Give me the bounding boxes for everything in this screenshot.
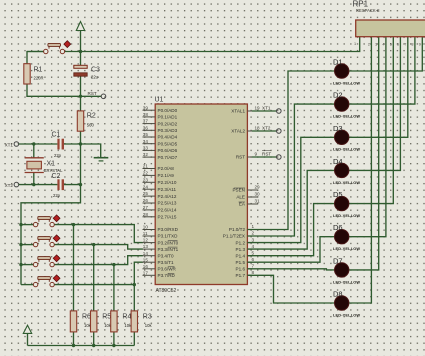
svg-text:P1.2: P1.2: [236, 240, 246, 245]
svg-text:P3.0/RXD: P3.0/RXD: [158, 227, 179, 232]
svg-text:31: 31: [255, 199, 261, 204]
COMPONENTS-LEFT: [24, 41, 153, 332]
node RST junction: [79, 95, 82, 98]
svg-text:36: 36: [143, 125, 149, 130]
svg-text:LED-YELLOW: LED-YELLOW: [333, 213, 360, 218]
svg-text:AT89C52: AT89C52: [156, 288, 177, 294]
svg-text:P1.5: P1.5: [236, 260, 246, 265]
wire XT1 rail: [19, 143, 58, 145]
svg-text:34: 34: [143, 139, 149, 144]
wire VCC rail from reset button to RP1 pin 1: [65, 37, 360, 52]
svg-text:LED-YELLOW: LED-YELLOW: [333, 114, 360, 119]
terminal XT2 left: [14, 182, 19, 187]
wire button row 3 to pin 14: [54, 256, 143, 265]
svg-text:X1: X1: [47, 161, 56, 168]
pin 10 P3.0/RXD: [143, 225, 179, 233]
resistor R4: [111, 311, 132, 332]
svg-text:R4: R4: [122, 314, 131, 321]
svg-text:D7: D7: [333, 256, 343, 265]
wire R5 bottom: [93, 332, 95, 346]
svg-text:P0.2/AD2: P0.2/AD2: [158, 121, 178, 126]
svg-text:16: 16: [143, 264, 149, 269]
svg-text:P2.1/A9: P2.1/A9: [158, 173, 175, 178]
svg-text:P0.3/AD3: P0.3/AD3: [158, 128, 178, 133]
pin 26 P2.5/A13: [143, 198, 177, 206]
wire R4 bottom: [113, 332, 115, 346]
svg-text:3: 3: [252, 237, 255, 242]
wire C1 right to ground column: [64, 143, 81, 145]
svg-text:11: 11: [143, 231, 148, 236]
svg-text:RST: RST: [88, 91, 97, 96]
svg-text:23: 23: [143, 177, 149, 182]
node rail row2: [19, 243, 22, 246]
svg-text:P3.5/T1: P3.5/T1: [158, 260, 175, 265]
svg-text:4: 4: [382, 43, 384, 47]
svg-text:6: 6: [252, 257, 255, 262]
wire R6 column: [73, 225, 75, 311]
pin 24 P2.3/A11: [143, 184, 177, 192]
svg-text:33: 33: [143, 146, 149, 151]
svg-text:P2.2/A10: P2.2/A10: [158, 180, 177, 185]
LED D6 LED-YELLOW: [333, 223, 360, 251]
svg-text:P0.1/AD1: P0.1/AD1: [158, 115, 178, 120]
pin 11 P3.1/TXD: [143, 231, 179, 239]
svg-text:10: 10: [143, 225, 149, 230]
svg-text:D6: D6: [333, 223, 343, 232]
pin 17 P3.7/RD: [143, 270, 176, 278]
resistor R5: [91, 311, 112, 332]
pin 14 P3.4/T0: [143, 251, 175, 259]
wire XT2 rail: [19, 184, 58, 186]
pin 30 ALE: [236, 192, 260, 200]
svg-text:22: 22: [143, 171, 149, 176]
svg-text:D5: D5: [333, 190, 343, 199]
pin 36 P0.3/AD3: [143, 125, 178, 133]
pin 9 RST: [236, 152, 258, 160]
svg-text:24: 24: [143, 184, 149, 189]
svg-text:XT2: XT2: [5, 183, 14, 188]
pin 18 XTAL2: [231, 126, 260, 134]
svg-text:18: 18: [255, 126, 261, 131]
node ground junction C1: [79, 142, 82, 145]
svg-text:P2.6/A14: P2.6/A14: [158, 208, 177, 213]
svg-text:P3.1/TXD: P3.1/TXD: [158, 234, 179, 239]
wire C3 top: [80, 52, 82, 66]
svg-text:LED-YELLOW: LED-YELLOW: [333, 147, 360, 152]
LED D4 LED-YELLOW: [333, 157, 360, 185]
pushbutton SW3: [33, 235, 60, 247]
svg-text:17: 17: [143, 270, 149, 275]
wire button row 2 left: [21, 244, 33, 246]
wire VCC rail left segment to reset button: [27, 51, 44, 53]
svg-text:P0.4/AD4: P0.4/AD4: [158, 135, 178, 140]
ground symbol arrow bottom left: [23, 325, 31, 345]
svg-text:PSEN: PSEN: [232, 188, 245, 193]
wire button row 2 to pin 13: [54, 245, 143, 250]
wire button row 1 left: [21, 224, 33, 226]
svg-text:14: 14: [143, 251, 149, 256]
wire RST terminal: [252, 156, 276, 158]
svg-text:XT1: XT1: [5, 142, 14, 147]
wire crystal bottom: [33, 173, 35, 185]
wire crystal top: [33, 144, 35, 158]
wire P1.3 to LED D4: [247, 170, 334, 249]
pin 22 P2.1/A9: [143, 171, 175, 179]
wire ground bottom rail: [28, 345, 135, 347]
svg-text:13: 13: [143, 244, 149, 249]
pin 27 P2.6/A14: [143, 205, 177, 213]
resistor R3: [131, 311, 152, 332]
node rail row3: [19, 263, 22, 266]
pin 23 P2.2/A10: [143, 177, 177, 185]
svg-text:R3: R3: [143, 314, 152, 321]
svg-text:P2.0/A8: P2.0/A8: [158, 166, 175, 171]
svg-text:15: 15: [143, 257, 149, 262]
svg-text:29: 29: [255, 185, 261, 190]
svg-text:26: 26: [143, 198, 149, 203]
svg-text:21: 21: [143, 164, 149, 169]
svg-text:1: 1: [354, 42, 356, 46]
wire R6 bottom: [73, 332, 75, 346]
svg-text:P3.3/INT1: P3.3/INT1: [158, 247, 179, 252]
svg-text:P1.0/T2: P1.0/T2: [229, 227, 246, 232]
svg-text:2: 2: [368, 43, 370, 47]
wire P1.7 to LED D8: [247, 275, 334, 303]
svg-text:5: 5: [252, 250, 255, 255]
pin 31 EA: [239, 199, 260, 207]
wire RST node to terminal: [81, 95, 102, 97]
pin 3 P1.2: [236, 237, 255, 245]
svg-text:P1.3: P1.3: [236, 247, 246, 252]
svg-text:D3: D3: [333, 124, 343, 133]
svg-text:10k: 10k: [145, 323, 153, 328]
wire R2 top: [80, 96, 82, 111]
svg-text:P3.2/INT0: P3.2/INT0: [158, 240, 179, 245]
node row1 R6 junction: [72, 223, 75, 226]
wire R1 bottom to RST node: [27, 84, 81, 96]
wire R1 branch (button left to R1 top): [27, 52, 44, 64]
svg-text:38: 38: [143, 112, 149, 117]
wire P1.0 to LED D1: [247, 71, 334, 230]
terminal XT2 right: [262, 126, 281, 134]
svg-text:R2: R2: [87, 113, 96, 120]
node VCC junction: [79, 50, 82, 53]
LED D7 LED-YELLOW: [333, 256, 360, 284]
svg-text:1: 1: [252, 224, 255, 229]
svg-text:P2.4/A12: P2.4/A12: [158, 194, 177, 199]
node row2 R5 junction: [92, 243, 95, 246]
svg-text:220R: 220R: [34, 76, 44, 81]
svg-text:D1: D1: [333, 58, 343, 67]
wire ground branch: [81, 144, 101, 158]
pushbutton SW2: [33, 215, 60, 227]
pin 16 P3.6/WR: [143, 264, 177, 272]
wire LED D8 to RP1: [349, 37, 372, 303]
svg-text:LED-YELLOW: LED-YELLOW: [333, 279, 360, 284]
wire LED D2 to RP1: [349, 37, 415, 104]
svg-text:LED-YELLOW: LED-YELLOW: [333, 312, 360, 317]
wire LED D3 to RP1: [349, 37, 408, 138]
node row3 R4 junction: [112, 263, 115, 266]
pin 25 P2.4/A12: [143, 191, 177, 199]
svg-text:RESPACK-8: RESPACK-8: [356, 8, 380, 13]
svg-text:8: 8: [252, 270, 255, 275]
svg-text:22p: 22p: [54, 153, 62, 158]
pin 5 P1.4: [236, 250, 255, 258]
pin 39 P0.0/AD0: [143, 105, 178, 113]
svg-text:D2: D2: [333, 91, 343, 100]
svg-text:EA: EA: [239, 202, 246, 207]
svg-text:XT1: XT1: [262, 106, 271, 111]
resistor R1: [24, 64, 44, 84]
svg-text:37: 37: [143, 119, 149, 124]
svg-text:R1: R1: [34, 67, 43, 74]
svg-text:D4: D4: [333, 157, 343, 166]
svg-text:30: 30: [255, 192, 261, 197]
svg-text:3: 3: [375, 43, 377, 47]
svg-text:P1.4: P1.4: [236, 253, 246, 258]
node bottom R4: [112, 344, 115, 347]
wire P1.5 to LED D6: [247, 237, 334, 263]
svg-text:P1.1/T2EX: P1.1/T2EX: [223, 234, 245, 239]
wire ground column to button rail: [21, 185, 81, 285]
svg-text:27: 27: [143, 205, 149, 210]
svg-text:P0.6/AD6: P0.6/AD6: [158, 148, 178, 153]
wire XT2 terminal: [252, 130, 276, 132]
pushbutton SW4: [33, 255, 60, 267]
svg-text:22p: 22p: [53, 193, 61, 198]
chip U1 AT89C52: [155, 97, 248, 295]
svg-text:P3.6/WR: P3.6/WR: [158, 267, 177, 272]
wire R3 column: [133, 285, 135, 311]
svg-text:ALE: ALE: [236, 195, 245, 200]
node XT2 crystal junction: [32, 183, 35, 186]
svg-text:28: 28: [143, 212, 149, 217]
wire button row 4 left: [21, 284, 33, 286]
LED D3 LED-YELLOW: [333, 124, 360, 152]
pin 33 P0.6/AD6: [143, 146, 178, 154]
svg-text:19: 19: [255, 106, 261, 111]
svg-text:XT2: XT2: [262, 126, 271, 131]
pin 4 P1.3: [236, 244, 255, 252]
terminal XT1 left: [14, 142, 19, 147]
svg-text:P1.7: P1.7: [236, 273, 246, 278]
svg-text:C3: C3: [91, 67, 100, 74]
svg-text:R6: R6: [82, 314, 91, 321]
svg-text:RST: RST: [262, 152, 271, 157]
capacitor C3 electrolytic: [74, 65, 100, 79]
svg-text:U1: U1: [155, 97, 164, 104]
terminal RST right: [262, 151, 281, 160]
pushbutton SW5: [33, 275, 60, 287]
node ground junction C2: [79, 183, 82, 186]
wire R4 column: [113, 265, 115, 311]
svg-text:P2.7/A15: P2.7/A15: [158, 215, 177, 220]
wire button row 4 to pin 15: [54, 262, 143, 284]
svg-text:XTAL2: XTAL2: [231, 129, 245, 134]
pin 6 P1.5: [236, 257, 255, 265]
wire LED D7 to RP1: [349, 37, 379, 270]
pin 35 P0.4/AD4: [143, 132, 178, 140]
wire ground column down: [80, 144, 82, 185]
svg-text:9: 9: [255, 152, 258, 157]
pin 13 P3.3/INT1: [143, 244, 179, 252]
svg-text:32: 32: [143, 152, 149, 157]
svg-text:R5: R5: [102, 314, 111, 321]
power symbol VCC: [76, 22, 84, 52]
node bottom R6: [72, 344, 75, 347]
node rail row1: [19, 223, 22, 226]
pin 21 P2.0/A8: [143, 164, 175, 172]
pin 12 P3.2/INT0: [143, 238, 179, 246]
wire P1.6 to LED D7: [247, 269, 334, 270]
wire button row 1 to pin 12: [54, 225, 143, 243]
resistor R2: [77, 111, 96, 131]
svg-text:8: 8: [411, 43, 413, 47]
svg-text:LED-YELLOW: LED-YELLOW: [333, 80, 360, 85]
wire LED D5 to RP1: [349, 37, 394, 204]
pin 8 P1.7: [236, 270, 255, 278]
wire P1.1 to LED D2: [247, 104, 334, 236]
wire LED D6 to RP1: [349, 37, 386, 237]
svg-text:P0.0/AD0: P0.0/AD0: [158, 108, 178, 113]
svg-text:39: 39: [143, 105, 149, 110]
svg-text:C2: C2: [52, 173, 61, 180]
svg-text:LED-YELLOW: LED-YELLOW: [333, 180, 360, 185]
LED D2 LED-YELLOW: [333, 91, 360, 119]
svg-text:P2.3/A11: P2.3/A11: [158, 187, 177, 192]
capacitor C1: [52, 131, 65, 158]
svg-text:7: 7: [252, 264, 255, 269]
wire LED D1 to RP1: [349, 37, 423, 71]
RP1 pin numbers: [368, 43, 421, 47]
svg-text:P0.7/AD7: P0.7/AD7: [158, 155, 178, 160]
wire C3 bottom to RST node: [80, 76, 82, 96]
pin 32 P0.7/AD7: [143, 152, 178, 160]
LED D5 LED-YELLOW: [333, 190, 360, 218]
svg-text:LED-YELLOW: LED-YELLOW: [333, 246, 360, 251]
svg-text:P3.4/T0: P3.4/T0: [158, 253, 175, 258]
terminal XT1 right: [262, 106, 281, 114]
WIRES-LEFT: [5, 22, 360, 348]
svg-text:P3.7/RD: P3.7/RD: [158, 273, 176, 278]
pin 34 P0.5/AD5: [143, 139, 178, 147]
wire P1.2 to LED D3: [247, 137, 334, 242]
svg-text:P1.6: P1.6: [236, 267, 246, 272]
svg-text:12: 12: [143, 238, 149, 243]
pin 7 P1.6: [236, 264, 255, 272]
svg-text:XTAL1: XTAL1: [231, 109, 245, 114]
svg-text:6: 6: [397, 43, 399, 47]
wire P1.4 to LED D5: [247, 204, 334, 256]
pin 38 P0.1/AD1: [143, 112, 178, 120]
pin 15 P3.5/T1: [143, 257, 175, 265]
LED D1 LED-YELLOW: [333, 58, 360, 86]
svg-text:9: 9: [419, 43, 421, 47]
pin 1 P1.0/T2: [229, 224, 255, 232]
wire button row 3 left: [21, 264, 33, 266]
svg-text:4: 4: [252, 244, 255, 249]
svg-text:5: 5: [390, 43, 392, 47]
pushbutton reset SW1: [44, 41, 71, 54]
pin 2 P1.1/T2EX: [223, 231, 255, 239]
svg-text:P0.5/AD5: P0.5/AD5: [158, 141, 178, 146]
pin 19 XTAL1: [231, 106, 260, 114]
node bottom R5: [92, 344, 95, 347]
ground symbol: [94, 158, 109, 161]
resistor pack RP1 RESPACK-8: [353, 0, 425, 46]
svg-text:35: 35: [143, 132, 149, 137]
LED D8 LED-YELLOW: [333, 290, 360, 318]
wire C2 right to ground column: [64, 184, 81, 186]
wire R5 column: [93, 245, 95, 311]
svg-text:RST: RST: [236, 155, 245, 160]
svg-text:22u: 22u: [91, 75, 99, 80]
terminal RST left: [101, 94, 106, 99]
svg-text:C1: C1: [52, 131, 61, 138]
pin 37 P0.2/AD2: [143, 119, 178, 127]
svg-text:560: 560: [87, 123, 95, 128]
capacitor C2: [52, 173, 65, 198]
wire XT1 terminal: [252, 110, 276, 112]
svg-text:7: 7: [404, 43, 406, 47]
crystal X1: [25, 158, 63, 173]
node XT1 crystal junction: [32, 142, 35, 145]
pin 29 PSEN: [232, 185, 260, 193]
resistor R6: [70, 311, 91, 332]
svg-text:25: 25: [143, 191, 149, 196]
wire LED D4 to RP1: [349, 37, 401, 171]
wire R3 bottom: [133, 332, 135, 346]
svg-text:D8: D8: [333, 290, 343, 299]
pin 28 P2.7/A15: [143, 212, 177, 220]
svg-text:P2.5/A13: P2.5/A13: [158, 201, 177, 206]
svg-text:2: 2: [252, 231, 255, 236]
node row4 R3 junction: [133, 283, 136, 286]
wire R2 bottom to ground node: [80, 131, 82, 144]
